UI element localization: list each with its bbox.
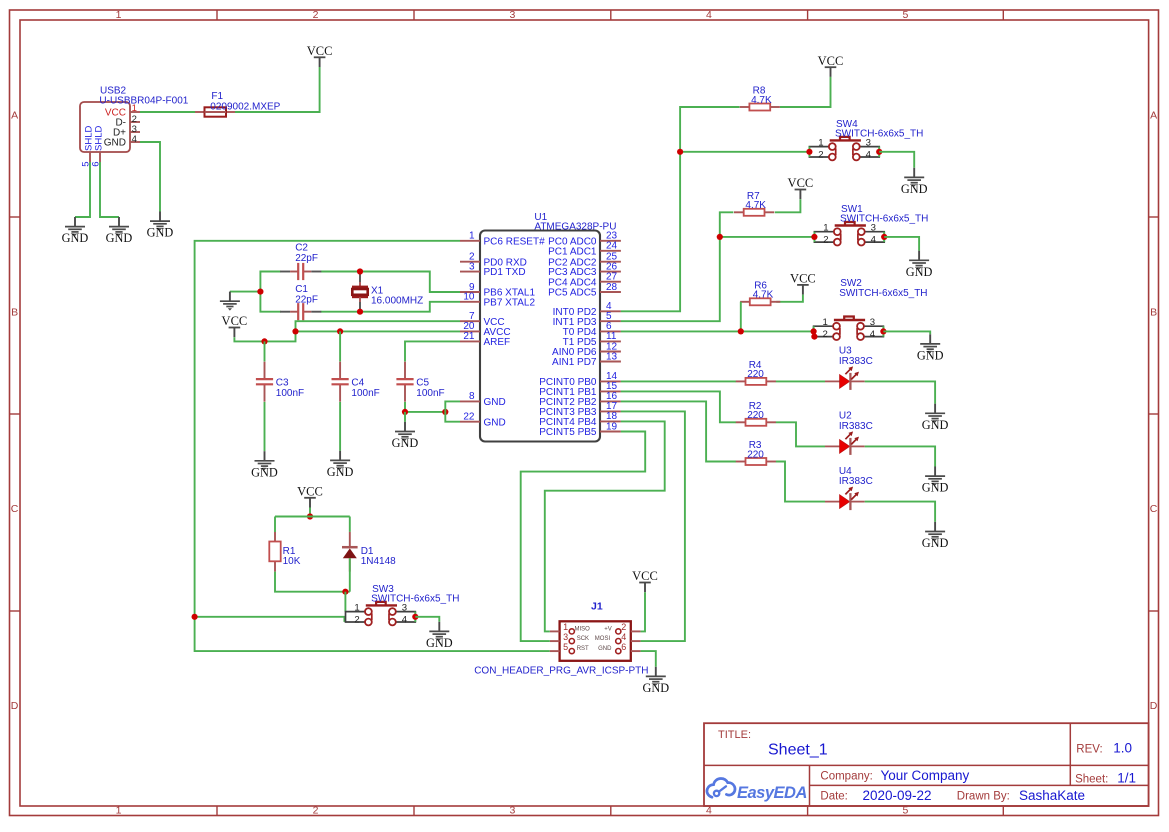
wire <box>140 142 160 212</box>
svg-text:A: A <box>1150 109 1157 121</box>
ground <box>642 667 669 695</box>
svg-text:SWITCH-6x6x5_TH: SWITCH-6x6x5_TH <box>840 214 928 225</box>
wire <box>405 411 445 413</box>
svg-text:1: 1 <box>822 317 827 328</box>
capacitor C2 <box>280 243 321 280</box>
svg-text:GND: GND <box>922 481 949 495</box>
resistor R2 <box>736 401 776 426</box>
power flag VCC <box>788 176 814 199</box>
junction <box>876 149 882 155</box>
svg-text:SCK: SCK <box>577 636 589 642</box>
svg-text:GND: GND <box>917 349 944 363</box>
junction <box>880 328 886 334</box>
junction <box>811 328 817 334</box>
svg-text:GND: GND <box>426 636 453 650</box>
svg-text:PC5 ADC5: PC5 ADC5 <box>548 288 597 299</box>
svg-text:GND: GND <box>104 138 126 149</box>
svg-text:3: 3 <box>563 632 568 642</box>
svg-text:4: 4 <box>132 134 137 145</box>
svg-text:Company:: Company: <box>820 771 872 783</box>
wire <box>264 402 266 451</box>
wire <box>621 380 736 382</box>
LED U3 <box>825 346 873 390</box>
junction <box>881 234 887 240</box>
svg-text:1: 1 <box>116 805 122 817</box>
junction <box>257 289 263 295</box>
ground <box>901 168 928 196</box>
wire <box>884 237 919 251</box>
svg-text:19: 19 <box>606 421 618 432</box>
diode D1 <box>342 532 396 572</box>
resistor R8 <box>740 86 780 111</box>
wire <box>621 411 685 641</box>
svg-text:5: 5 <box>902 9 908 21</box>
switch SW1 <box>814 204 928 246</box>
svg-text:8: 8 <box>469 391 475 402</box>
svg-text:C4: C4 <box>351 378 364 389</box>
wire <box>776 295 803 302</box>
junction <box>412 614 418 620</box>
svg-text:220: 220 <box>747 410 764 421</box>
junction <box>811 334 817 340</box>
ground <box>62 217 89 245</box>
ground <box>251 451 278 479</box>
svg-text:22pF: 22pF <box>295 253 318 264</box>
wire <box>545 421 665 631</box>
svg-text:VCC: VCC <box>790 272 816 286</box>
svg-text:1: 1 <box>818 138 823 149</box>
capacitor C3 <box>256 362 304 402</box>
svg-text:EasyEDA: EasyEDA <box>737 784 807 802</box>
svg-text:GND: GND <box>922 418 949 432</box>
LED U2 <box>825 411 873 455</box>
svg-text:X1: X1 <box>371 285 384 296</box>
ground <box>906 251 933 279</box>
svg-text:10K: 10K <box>283 556 301 567</box>
power flag VCC <box>297 485 323 508</box>
wire <box>321 272 461 293</box>
power flag VCC <box>307 44 333 67</box>
svg-text:VCC: VCC <box>297 485 323 499</box>
wire <box>741 330 814 332</box>
svg-text:GND: GND <box>251 465 278 479</box>
USB connector USB2 <box>80 86 189 167</box>
wire <box>260 272 281 312</box>
wire <box>776 380 825 382</box>
svg-text:Drawn By:: Drawn By: <box>957 791 1010 803</box>
wire <box>641 592 645 631</box>
wire <box>404 412 406 422</box>
wire <box>235 67 320 112</box>
wire <box>776 422 825 446</box>
fuse F1 <box>195 91 281 117</box>
wire <box>100 162 119 217</box>
svg-text:22: 22 <box>463 412 475 423</box>
svg-text:1: 1 <box>132 103 137 114</box>
wire <box>641 651 656 667</box>
svg-text:MOSI: MOSI <box>595 636 611 642</box>
wire <box>883 331 930 334</box>
svg-text:16.000MHZ: 16.000MHZ <box>371 296 423 307</box>
wire <box>404 402 406 412</box>
wire <box>344 592 346 612</box>
switch SW3 <box>346 584 460 626</box>
junction <box>357 309 363 315</box>
svg-text:GND: GND <box>327 465 354 479</box>
ground <box>922 467 949 495</box>
svg-text:SWITCH-6x6x5_TH: SWITCH-6x6x5_TH <box>835 128 923 139</box>
power flag VCC <box>790 272 816 295</box>
LED U4 <box>825 466 873 510</box>
ground <box>922 404 949 432</box>
svg-text:1N4148: 1N4148 <box>361 556 396 567</box>
wire <box>415 617 439 622</box>
switch SW2 <box>814 278 928 340</box>
svg-text:2020-09-22: 2020-09-22 <box>863 788 932 803</box>
capacitor C1 <box>280 284 321 320</box>
svg-text:100nF: 100nF <box>276 388 304 399</box>
ground <box>147 212 174 240</box>
svg-text:REV:: REV: <box>1076 743 1102 755</box>
wire <box>720 236 815 238</box>
ground <box>106 217 133 245</box>
wire <box>780 77 831 107</box>
svg-text:GND: GND <box>906 265 933 279</box>
wire <box>195 241 550 651</box>
svg-text:2: 2 <box>823 235 828 246</box>
wire <box>339 331 341 361</box>
svg-text:IR383C: IR383C <box>839 476 873 487</box>
svg-text:SHLD: SHLD <box>94 126 105 151</box>
resistor R4 <box>736 360 776 385</box>
svg-text:SashaKate: SashaKate <box>1019 788 1085 803</box>
junction <box>677 149 683 155</box>
switch SW4 <box>809 119 923 161</box>
svg-text:2: 2 <box>621 622 626 632</box>
junction <box>192 614 198 620</box>
svg-text:10: 10 <box>463 292 475 303</box>
wire <box>309 508 311 517</box>
wire <box>321 302 461 312</box>
wire <box>865 381 935 403</box>
svg-text:1: 1 <box>563 622 568 632</box>
wire <box>296 330 461 332</box>
svg-text:4: 4 <box>621 632 626 642</box>
power flag VCC <box>632 569 658 592</box>
resistor R7 <box>734 191 774 216</box>
power flag VCC <box>222 314 248 337</box>
svg-text:GND: GND <box>922 536 949 550</box>
svg-text:Your Company: Your Company <box>881 768 970 783</box>
svg-text:4.7K: 4.7K <box>745 200 766 211</box>
wire <box>445 412 460 422</box>
power flag VCC <box>818 54 844 77</box>
junction <box>806 149 812 155</box>
wire <box>349 517 351 532</box>
svg-text:SWITCH-6x6x5_TH: SWITCH-6x6x5_TH <box>371 593 459 604</box>
ground <box>426 622 453 650</box>
svg-text:1: 1 <box>354 603 359 614</box>
svg-text:24: 24 <box>606 241 618 252</box>
junction <box>337 328 343 334</box>
svg-text:2: 2 <box>313 805 319 817</box>
wire <box>621 302 741 332</box>
svg-text:ATMEGA328P-PU: ATMEGA328P-PU <box>534 222 616 233</box>
junction <box>402 409 408 415</box>
resistor R1 <box>269 532 300 572</box>
svg-text:1: 1 <box>469 231 475 242</box>
wire <box>879 152 914 168</box>
svg-text:21: 21 <box>463 331 475 342</box>
svg-text:C5: C5 <box>416 378 429 389</box>
wire <box>195 617 345 622</box>
svg-text:B: B <box>11 306 18 318</box>
wire <box>775 199 801 212</box>
svg-text:Date:: Date: <box>820 791 848 803</box>
crystal X1 <box>352 273 423 310</box>
wire <box>621 212 734 321</box>
svg-text:D: D <box>11 700 19 712</box>
svg-text:PB7 XTAL2: PB7 XTAL2 <box>484 297 536 308</box>
svg-text:4: 4 <box>870 329 876 340</box>
svg-text:J1: J1 <box>591 600 603 612</box>
svg-text:4.7K: 4.7K <box>751 95 772 106</box>
svg-text:220: 220 <box>747 369 764 380</box>
ground <box>220 292 240 311</box>
svg-text:GND: GND <box>147 226 174 240</box>
svg-text:1/1: 1/1 <box>1117 770 1136 785</box>
svg-text:RST: RST <box>577 646 589 652</box>
svg-text:GND: GND <box>598 646 612 652</box>
wire <box>521 432 646 642</box>
wire <box>776 462 825 502</box>
svg-text:220: 220 <box>747 449 764 460</box>
svg-text:3: 3 <box>509 9 515 21</box>
svg-text:1: 1 <box>823 223 828 234</box>
wire <box>865 502 935 522</box>
capacitor C4 <box>332 362 380 402</box>
svg-text:100nF: 100nF <box>416 388 444 399</box>
wire <box>621 401 736 461</box>
svg-text:1: 1 <box>116 9 122 21</box>
svg-text:22pF: 22pF <box>295 294 318 305</box>
svg-text:VCC: VCC <box>788 176 814 190</box>
svg-text:AREF: AREF <box>484 337 511 348</box>
svg-text:28: 28 <box>606 282 618 293</box>
svg-text:VCC: VCC <box>307 44 333 58</box>
svg-text:4.7K: 4.7K <box>753 290 774 301</box>
svg-text:SWITCH-6x6x5_TH: SWITCH-6x6x5_TH <box>839 288 927 299</box>
junction <box>738 328 744 334</box>
junction <box>442 409 448 415</box>
ground <box>327 451 354 479</box>
svg-text:C3: C3 <box>276 378 289 389</box>
IC U1 <box>460 212 621 442</box>
wire <box>75 162 90 217</box>
svg-text:VCC: VCC <box>222 314 248 328</box>
svg-text:GND: GND <box>392 436 419 450</box>
junction <box>357 268 363 274</box>
svg-text:MISO: MISO <box>575 627 591 633</box>
svg-text:IR383C: IR383C <box>839 356 873 367</box>
svg-text:C: C <box>1150 503 1158 515</box>
svg-text:U-USBBR04P-F001: U-USBBR04P-F001 <box>99 96 188 107</box>
wire <box>140 111 195 113</box>
svg-text:GND: GND <box>106 231 133 245</box>
svg-text:3: 3 <box>509 805 515 817</box>
ground <box>922 522 949 550</box>
junction <box>261 338 267 344</box>
svg-text:GND: GND <box>901 182 928 196</box>
svg-text:4: 4 <box>706 9 712 21</box>
junction <box>307 513 313 519</box>
wire <box>275 572 350 592</box>
junction <box>811 234 817 240</box>
connector J1 <box>474 600 648 676</box>
svg-text:5: 5 <box>563 642 568 652</box>
svg-text:TITLE:: TITLE: <box>718 729 751 741</box>
junction <box>342 589 348 595</box>
wire <box>865 446 935 466</box>
svg-text:3: 3 <box>870 317 875 328</box>
svg-text:IR383C: IR383C <box>839 421 873 432</box>
svg-text:2: 2 <box>818 149 823 160</box>
svg-text:GND: GND <box>62 231 89 245</box>
resistor R6 <box>740 280 780 305</box>
svg-text:4: 4 <box>871 235 877 246</box>
junction <box>717 234 723 240</box>
ground <box>392 422 419 450</box>
capacitor C5 <box>396 362 444 402</box>
svg-text:3: 3 <box>469 261 475 272</box>
wire <box>264 341 266 361</box>
wire <box>234 321 460 341</box>
wire <box>274 517 276 533</box>
svg-text:1.0: 1.0 <box>1113 740 1132 755</box>
wire <box>230 291 261 293</box>
wire <box>621 391 736 422</box>
svg-text:2: 2 <box>313 9 319 21</box>
svg-text:13: 13 <box>606 351 618 362</box>
ground <box>917 334 944 362</box>
svg-text:+V: +V <box>604 627 612 633</box>
svg-text:4: 4 <box>866 149 872 160</box>
svg-text:PC6 RESET#: PC6 RESET# <box>484 236 546 247</box>
svg-text:Sheet_1: Sheet_1 <box>768 742 828 759</box>
svg-text:CON_HEADER_PRG_AVR_ICSP-PTH: CON_HEADER_PRG_AVR_ICSP-PTH <box>474 665 648 676</box>
wire <box>445 401 460 412</box>
svg-text:0209002.MXEP: 0209002.MXEP <box>210 101 280 112</box>
svg-text:100nF: 100nF <box>351 388 379 399</box>
svg-text:6: 6 <box>621 642 626 652</box>
svg-text:2: 2 <box>354 614 359 625</box>
svg-text:VCC: VCC <box>818 54 844 68</box>
wire <box>339 402 341 451</box>
resistor R3 <box>736 440 776 465</box>
svg-text:B: B <box>1150 306 1157 318</box>
svg-text:GND: GND <box>484 417 506 428</box>
svg-text:C: C <box>11 503 19 515</box>
svg-text:PCINT5 PB5: PCINT5 PB5 <box>539 427 597 438</box>
wire <box>621 107 740 311</box>
svg-text:GND: GND <box>484 397 506 408</box>
wire <box>680 151 809 153</box>
svg-text:D: D <box>1150 700 1158 712</box>
wire <box>275 516 350 518</box>
svg-text:2: 2 <box>822 329 827 340</box>
svg-text:PC1 ADC1: PC1 ADC1 <box>548 246 597 257</box>
wire <box>405 341 460 361</box>
svg-text:AIN1 PD7: AIN1 PD7 <box>552 357 597 368</box>
svg-text:A: A <box>11 109 18 121</box>
svg-text:4: 4 <box>402 614 408 625</box>
svg-text:PD1 TXD: PD1 TXD <box>484 267 526 278</box>
svg-text:GND: GND <box>642 681 669 695</box>
svg-text:VCC: VCC <box>632 569 658 583</box>
svg-text:Sheet:: Sheet: <box>1075 773 1108 785</box>
junction <box>292 328 298 334</box>
